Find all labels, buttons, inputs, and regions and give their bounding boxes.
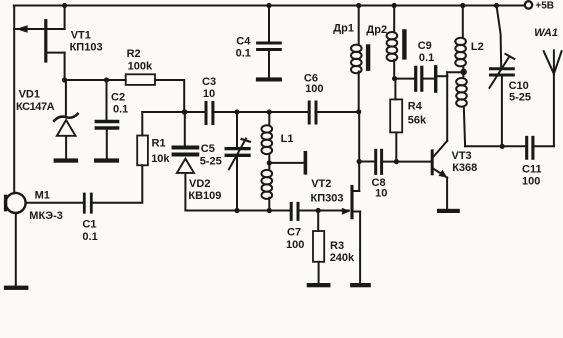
svg-text:КС147А: КС147А bbox=[16, 101, 55, 113]
svg-text:R3: R3 bbox=[330, 240, 344, 252]
svg-text:+5В: +5В bbox=[535, 0, 554, 11]
svg-text:VT1: VT1 bbox=[71, 29, 91, 41]
svg-text:C4: C4 bbox=[236, 36, 251, 48]
svg-text:C3: C3 bbox=[202, 76, 216, 88]
svg-text:C1: C1 bbox=[82, 218, 96, 230]
svg-text:5-25: 5-25 bbox=[509, 92, 531, 104]
svg-text:5-25: 5-25 bbox=[200, 155, 222, 167]
svg-text:C10: C10 bbox=[509, 80, 529, 92]
svg-text:Др1: Др1 bbox=[333, 23, 354, 35]
svg-text:КП303: КП303 bbox=[311, 192, 344, 204]
svg-text:0.1: 0.1 bbox=[419, 52, 434, 64]
svg-text:КП103: КП103 bbox=[70, 42, 103, 54]
svg-text:К368: К368 bbox=[452, 162, 477, 174]
svg-text:100k: 100k bbox=[128, 60, 153, 72]
svg-text:0.1: 0.1 bbox=[82, 231, 97, 243]
svg-text:R2: R2 bbox=[127, 48, 141, 60]
svg-text:0.1: 0.1 bbox=[236, 47, 251, 59]
svg-text:VD1: VD1 bbox=[19, 89, 40, 101]
svg-text:10: 10 bbox=[375, 188, 387, 200]
svg-text:R4: R4 bbox=[408, 101, 423, 113]
svg-text:VT3: VT3 bbox=[452, 150, 472, 162]
svg-text:0.1: 0.1 bbox=[113, 104, 128, 116]
svg-text:C11: C11 bbox=[522, 164, 542, 176]
svg-text:10k: 10k bbox=[151, 153, 170, 165]
svg-text:100: 100 bbox=[305, 83, 323, 95]
svg-text:100: 100 bbox=[522, 176, 540, 188]
svg-text:R1: R1 bbox=[152, 138, 166, 150]
svg-text:240k: 240k bbox=[330, 252, 355, 264]
svg-text:МКЭ-3: МКЭ-3 bbox=[29, 210, 63, 222]
svg-text:56k: 56k bbox=[408, 114, 427, 126]
svg-text:100: 100 bbox=[286, 239, 304, 251]
svg-text:WA1: WA1 bbox=[534, 27, 558, 39]
svg-text:C7: C7 bbox=[287, 227, 301, 239]
svg-text:VT2: VT2 bbox=[311, 178, 331, 190]
svg-text:Др2: Др2 bbox=[366, 24, 387, 36]
svg-text:VD2: VD2 bbox=[189, 178, 210, 190]
svg-text:КВ109: КВ109 bbox=[188, 190, 221, 202]
svg-text:C9: C9 bbox=[418, 40, 432, 52]
svg-text:M1: M1 bbox=[35, 189, 50, 201]
svg-text:10: 10 bbox=[203, 88, 215, 100]
svg-text:L2: L2 bbox=[471, 41, 484, 53]
svg-text:L1: L1 bbox=[281, 133, 294, 145]
svg-text:C2: C2 bbox=[111, 92, 125, 104]
svg-text:C5: C5 bbox=[201, 143, 215, 155]
